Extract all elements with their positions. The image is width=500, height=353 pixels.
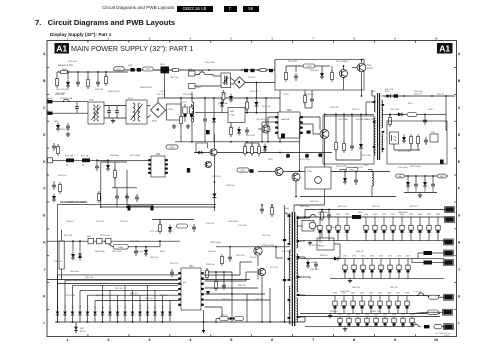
svg-text:6616: 6616 bbox=[358, 212, 363, 214]
wire stby links bbox=[297, 226, 340, 259]
svg-text:3511: 3511 bbox=[146, 69, 151, 71]
svg-text:2500 100n: 2500 100n bbox=[70, 271, 79, 273]
svg-text:3533 47R: 3533 47R bbox=[288, 61, 298, 63]
capacitor 2502 Y bbox=[115, 106, 119, 119]
capacitor 2536 blk bbox=[187, 168, 190, 173]
diode 6598 bbox=[144, 246, 148, 257]
capacitor 2560b bbox=[310, 261, 319, 271]
svg-text:2658: 2658 bbox=[410, 314, 414, 316]
resistor 3531 bbox=[285, 66, 303, 82]
capacitor 2504 bbox=[96, 72, 100, 87]
svg-text:+12V: +12V bbox=[72, 304, 74, 309]
bridge rectifier 6502 bbox=[231, 77, 246, 88]
wire 7502 collector bbox=[265, 98, 267, 125]
capacitor 2598 bbox=[170, 269, 174, 277]
svg-text:2516 330n: 2516 330n bbox=[183, 94, 194, 96]
svg-text:3573: 3573 bbox=[170, 147, 176, 149]
capacitor 2610 rail2 bbox=[343, 259, 347, 279]
node junction top-left bbox=[67, 71, 99, 73]
svg-text:2553 1n: 2553 1n bbox=[352, 109, 360, 111]
svg-text:AC POWER/STANDBY: AC POWER/STANDBY bbox=[60, 200, 88, 204]
svg-text:2565 470u: 2565 470u bbox=[398, 167, 409, 169]
resistor 3512 bbox=[170, 69, 181, 72]
wire aux sub-return bbox=[404, 189, 437, 193]
svg-text:A1: A1 bbox=[439, 44, 450, 54]
wire bridge output bbox=[158, 69, 167, 110]
svg-text:6511 BAV21: 6511 BAV21 bbox=[98, 160, 110, 163]
svg-text:6506 BYD33: 6506 BYD33 bbox=[140, 87, 153, 89]
diode 6583 bbox=[332, 257, 341, 261]
svg-text:2633 10k: 2633 10k bbox=[310, 201, 318, 203]
resistor 3576 bbox=[258, 144, 261, 156]
fuse 1501 T2.5A bbox=[195, 70, 213, 76]
svg-text:2651: 2651 bbox=[347, 314, 351, 316]
svg-text:2507 10k: 2507 10k bbox=[85, 277, 93, 279]
capacitor 2633 rail3 bbox=[360, 296, 364, 314]
svg-text:5501: 5501 bbox=[128, 98, 133, 100]
capacitor 2530 bbox=[294, 66, 298, 81]
wire secondary top rail bbox=[381, 95, 455, 97]
svg-text:D: D bbox=[43, 133, 46, 137]
svg-text:6562 STPS: 6562 STPS bbox=[336, 166, 347, 168]
svg-text:2584 100n: 2584 100n bbox=[282, 251, 291, 253]
node rail junctions bbox=[191, 97, 267, 99]
svg-text:2654: 2654 bbox=[374, 314, 378, 316]
svg-text:F: F bbox=[458, 187, 460, 191]
wire bus B links bbox=[104, 240, 161, 247]
svg-text:2562 1000u: 2562 1000u bbox=[410, 166, 422, 168]
svg-text:2505 2n2: 2505 2n2 bbox=[68, 61, 78, 63]
svg-text:L: L bbox=[458, 321, 460, 325]
svg-text:K: K bbox=[43, 294, 46, 298]
svg-text:6585: 6585 bbox=[160, 251, 165, 253]
capacitor 2601 rail1 bbox=[427, 217, 431, 241]
svg-text:3537 5k6: 3537 5k6 bbox=[246, 135, 255, 137]
resistor 3547 pill bbox=[177, 224, 188, 228]
svg-text:2573 100n: 2573 100n bbox=[100, 235, 111, 237]
connector 1016 bbox=[443, 309, 453, 315]
op-amp 7511 supervisor IC bbox=[148, 154, 168, 177]
connector 1013 bbox=[444, 250, 454, 256]
primary snubber box bbox=[323, 116, 374, 164]
svg-text:2546 68n: 2546 68n bbox=[110, 155, 120, 157]
wire standby drop-left bbox=[57, 204, 59, 321]
capacitor 2611 rail2 bbox=[352, 259, 356, 279]
capacitor 2590 rail1 bbox=[318, 217, 322, 241]
transformer 5505 terminals bbox=[373, 101, 384, 150]
resistor 3587 bbox=[235, 317, 244, 321]
resistor 3500 bbox=[58, 69, 70, 74]
resistor 3582 bbox=[97, 238, 103, 244]
svg-text:VLED: VLED bbox=[140, 304, 142, 310]
capacitor 2597 bbox=[134, 246, 138, 256]
schematic border frame bbox=[47, 41, 457, 337]
wire line2 lower bbox=[195, 85, 221, 87]
svg-text:2696 4n7: 2696 4n7 bbox=[222, 299, 230, 301]
svg-text:2598: 2598 bbox=[400, 214, 404, 216]
relay box 7510 bbox=[305, 167, 331, 189]
diode 6570 bbox=[106, 159, 110, 171]
svg-text:1: 1 bbox=[67, 36, 69, 40]
resistor 3594 bbox=[428, 310, 439, 314]
diode 6552 bbox=[402, 135, 406, 144]
capacitor 2617 rail2 bbox=[406, 259, 410, 279]
node top bus junctions bbox=[208, 69, 276, 71]
svg-text:C: C bbox=[43, 106, 46, 110]
svg-text:1004: 1004 bbox=[188, 69, 192, 71]
svg-text:2535 2k2: 2535 2k2 bbox=[145, 298, 153, 300]
svg-text:7503: 7503 bbox=[286, 110, 292, 112]
wire primary rail bbox=[165, 97, 281, 99]
svg-text:T 1.6A: T 1.6A bbox=[410, 322, 417, 325]
svg-text:C: C bbox=[458, 106, 461, 110]
transformer 5506 core bbox=[292, 212, 294, 326]
svg-text:2668 100n: 2668 100n bbox=[300, 206, 309, 208]
svg-text:2524 1n: 2524 1n bbox=[248, 77, 256, 79]
wire mid-right rail top bbox=[300, 171, 390, 173]
sheet reference box A1 top-left bbox=[55, 43, 70, 54]
wire aux sub-rail bbox=[396, 175, 448, 177]
svg-text:P-ON: P-ON bbox=[87, 304, 89, 309]
svg-text:2613: 2613 bbox=[370, 256, 374, 258]
wire transformer primary top bbox=[372, 95, 376, 96]
wire conn links1 bbox=[444, 210, 445, 243]
resistor 3572 bbox=[57, 144, 60, 156]
diode 6512 bbox=[254, 100, 258, 113]
zener 6516 bbox=[263, 144, 267, 153]
svg-text:2638: 2638 bbox=[405, 292, 409, 294]
resistor 3541 bbox=[343, 114, 346, 154]
svg-text:2615: 2615 bbox=[388, 256, 392, 258]
transistor 7516 bbox=[258, 268, 265, 275]
resistor 3522 bbox=[180, 97, 183, 142]
svg-text:2614: 2614 bbox=[379, 256, 383, 258]
svg-text:3571 1R: 3571 1R bbox=[81, 156, 89, 158]
resistor 3520 bbox=[222, 90, 225, 102]
svg-text:A: A bbox=[43, 52, 46, 56]
diode 6551 bbox=[396, 112, 405, 116]
connector 1017 bbox=[444, 324, 454, 330]
ground mains filter bbox=[111, 119, 115, 123]
resistor 3581 bbox=[87, 236, 94, 244]
capacitor 2655 rail4 bbox=[383, 317, 387, 327]
wire top bus bbox=[113, 69, 275, 71]
grid reference ticks and coordinates bbox=[43, 36, 461, 342]
svg-text:500: 500 bbox=[82, 165, 85, 167]
capacitor 2602 rail1 bbox=[436, 217, 440, 241]
svg-text:9: 9 bbox=[394, 36, 396, 40]
diode distribution row bbox=[56, 312, 172, 316]
svg-text:STBY: STBY bbox=[80, 304, 82, 310]
svg-text:2724 47u: 2724 47u bbox=[120, 221, 128, 223]
svg-text:2619 2k2: 2619 2k2 bbox=[372, 206, 380, 208]
svg-text:3577: 3577 bbox=[241, 170, 247, 172]
transistor 7531 bbox=[352, 63, 373, 97]
wire inductor links bbox=[155, 69, 171, 71]
wire center drop bbox=[214, 134, 216, 211]
diode 6560 bbox=[343, 171, 347, 185]
wire loop left bbox=[100, 162, 214, 208]
capacitor 2507b X bbox=[137, 68, 141, 72]
svg-text:H: H bbox=[43, 241, 46, 245]
svg-text:2515 47n: 2515 47n bbox=[170, 77, 180, 79]
svg-text:2616: 2616 bbox=[397, 256, 401, 258]
svg-text:3567: 3567 bbox=[440, 176, 446, 178]
svg-text:5502: 5502 bbox=[160, 64, 165, 66]
svg-text:3550: 3550 bbox=[371, 91, 375, 93]
capacitor 2548 bbox=[192, 224, 196, 232]
svg-text:6586 LL4148: 6586 LL4148 bbox=[262, 245, 275, 247]
transistor 7508 bbox=[275, 168, 283, 176]
resistor 3521 bbox=[230, 123, 233, 138]
resistor 3586 bbox=[220, 317, 229, 321]
svg-text:2521 1k5: 2521 1k5 bbox=[115, 288, 123, 290]
svg-text:2759 10k: 2759 10k bbox=[96, 295, 104, 297]
svg-text:6: 6 bbox=[271, 338, 273, 342]
capacitor 2632 rail3 bbox=[351, 296, 355, 314]
svg-text:3555 10R: 3555 10R bbox=[390, 109, 400, 111]
capacitor 2503 bbox=[76, 72, 80, 87]
capacitor 2556 pre-IC bbox=[305, 90, 314, 108]
wire rail4 return bbox=[305, 326, 412, 328]
svg-text:3566: 3566 bbox=[398, 176, 404, 178]
svg-text:2514 47u: 2514 47u bbox=[100, 283, 108, 285]
svg-text:H: H bbox=[458, 241, 461, 245]
capacitor 2652 rail4 bbox=[356, 317, 360, 327]
label feedback bbox=[398, 151, 411, 153]
wire rail1a bbox=[304, 210, 444, 218]
wire rail1 return bbox=[300, 240, 444, 242]
diode 6518 bbox=[306, 260, 315, 269]
capacitor 2599 rail1 bbox=[409, 217, 413, 241]
svg-text:2501 2n2 250V: 2501 2n2 250V bbox=[56, 89, 70, 91]
diode 6501 bbox=[66, 72, 70, 89]
wire lower control bus bbox=[194, 152, 332, 154]
svg-text:5507: 5507 bbox=[364, 165, 369, 167]
svg-text:2617: 2617 bbox=[406, 256, 410, 258]
svg-text:7531: 7531 bbox=[367, 65, 372, 67]
wire sub318 bbox=[215, 315, 227, 323]
capacitor 2654 rail4 bbox=[374, 317, 378, 327]
svg-text:6507: 6507 bbox=[284, 94, 289, 96]
capacitor 2534 blk bbox=[305, 153, 309, 158]
capacitor 2631 rail3 bbox=[342, 296, 346, 314]
svg-text:2591: 2591 bbox=[327, 214, 331, 216]
resistor 3560 bbox=[340, 168, 358, 172]
svg-text:3510: 3510 bbox=[117, 69, 123, 71]
module 7501 box bbox=[228, 108, 245, 123]
svg-text:2655: 2655 bbox=[383, 314, 387, 316]
svg-text:3527 820R: 3527 820R bbox=[130, 155, 141, 157]
wire conn links4 bbox=[442, 326, 445, 328]
transistor 7512 bbox=[210, 149, 217, 156]
svg-text:6573 BZX: 6573 BZX bbox=[130, 241, 140, 243]
svg-text:6508 BY228: 6508 BY228 bbox=[108, 91, 120, 93]
transformer 5505 core bbox=[378, 93, 380, 160]
svg-text:6553: 6553 bbox=[408, 103, 413, 105]
svg-text:2766 47u: 2766 47u bbox=[130, 295, 138, 297]
transformer 5506 secondary winding bbox=[296, 216, 297, 322]
svg-text:6535: 6535 bbox=[268, 159, 273, 161]
wire stubs frame-left bbox=[47, 99, 49, 111]
connector 1010 +B bbox=[445, 207, 455, 213]
wire IC right drops bbox=[205, 272, 247, 322]
svg-text:2653: 2653 bbox=[365, 314, 369, 316]
diode 6517 blk bbox=[250, 169, 254, 173]
svg-text:2602: 2602 bbox=[436, 214, 440, 216]
capacitor 2535 blk bbox=[318, 153, 322, 156]
capacitor 2597 rail1 bbox=[391, 217, 395, 241]
diode 6515 bbox=[196, 151, 205, 155]
capacitor 2658 rail4 bbox=[410, 317, 414, 327]
startup circuit box bbox=[275, 60, 364, 91]
connector 1011 bbox=[445, 217, 455, 223]
svg-text:2738 4n7: 2738 4n7 bbox=[66, 221, 74, 223]
resistor 3532 bbox=[331, 66, 334, 82]
node mid bus junctions bbox=[191, 141, 281, 143]
svg-text:2596: 2596 bbox=[382, 214, 386, 216]
resistor 3515 bbox=[246, 97, 249, 113]
svg-text:3557 10k: 3557 10k bbox=[385, 89, 395, 91]
connector 1004 line2 bbox=[188, 69, 195, 76]
capacitor 2615 rail2 bbox=[388, 259, 392, 279]
svg-text:T 3.15A: T 3.15A bbox=[414, 291, 422, 294]
svg-text:2661 2k2: 2661 2k2 bbox=[372, 311, 380, 313]
svg-text:4: 4 bbox=[189, 338, 192, 342]
wire bottom bus bbox=[55, 321, 305, 323]
sheet reference box A1 top-right bbox=[437, 43, 453, 54]
wire startup outputs bbox=[344, 78, 373, 96]
fuse 1502 bbox=[308, 214, 317, 217]
wire distribution lines bbox=[58, 275, 171, 322]
capacitor 2596 rail1 bbox=[382, 217, 386, 241]
svg-text:A1: A1 bbox=[56, 44, 67, 54]
capacitor 2574 bbox=[66, 123, 70, 136]
svg-text:3565 1R: 3565 1R bbox=[355, 167, 363, 169]
svg-text:T2.5A: T2.5A bbox=[198, 70, 204, 73]
capacitor 2500 X2 bbox=[75, 102, 79, 114]
wire q down links bbox=[261, 276, 271, 323]
wire standby line bbox=[48, 158, 152, 163]
connector 1002 mains line terminal bbox=[48, 98, 54, 104]
svg-text:7514: 7514 bbox=[188, 266, 194, 268]
svg-text:2637: 2637 bbox=[396, 292, 400, 294]
resistor 3584 bbox=[221, 254, 224, 266]
svg-text:B: B bbox=[43, 79, 46, 83]
svg-text:7511: 7511 bbox=[156, 154, 162, 156]
resistor 3555 bbox=[410, 134, 413, 146]
ground return bbox=[328, 314, 332, 318]
svg-text:+310V: +310V bbox=[160, 91, 166, 93]
capacitor 2592 rail1 bbox=[336, 217, 340, 241]
capacitor 2506b X bbox=[128, 65, 135, 72]
svg-text:500: 500 bbox=[66, 165, 69, 167]
transformer 5505 primary winding bbox=[374, 96, 375, 155]
svg-text:2601: 2601 bbox=[427, 214, 431, 216]
diode 6504 bbox=[237, 127, 241, 136]
svg-text:7506: 7506 bbox=[431, 132, 436, 134]
wire MOSFET drain bbox=[324, 114, 326, 130]
svg-text:1500 T3.15A: 1500 T3.15A bbox=[60, 97, 72, 100]
wire primary return bbox=[283, 205, 286, 323]
transistor 7502 bbox=[258, 120, 270, 133]
svg-text:3570 3R3: 3570 3R3 bbox=[65, 156, 73, 158]
wire filter link bottom bbox=[104, 117, 126, 119]
label plot number bbox=[436, 332, 451, 337]
capacitor 2582 bbox=[228, 247, 232, 262]
svg-text:BC558: BC558 bbox=[367, 68, 373, 70]
capacitor 2511 bulk bbox=[189, 104, 193, 122]
capacitor 2594 rail1 bbox=[364, 217, 368, 241]
svg-text:2506: 2506 bbox=[128, 65, 132, 67]
capacitor 2561b bbox=[354, 171, 358, 185]
svg-text:2543 10n: 2543 10n bbox=[305, 94, 315, 96]
label texture annotations bbox=[54, 201, 418, 313]
wire feedback internals bbox=[394, 144, 420, 150]
svg-text:2647 1k5: 2647 1k5 bbox=[390, 287, 398, 289]
svg-text:3524 4k7: 3524 4k7 bbox=[262, 106, 271, 108]
resistor 3546 bbox=[159, 219, 162, 234]
connector 1005 line2 bbox=[189, 84, 196, 89]
capacitor 2616 rail2 bbox=[397, 259, 401, 279]
resistor 3598 bbox=[206, 268, 209, 280]
svg-text:DEG: DEG bbox=[147, 305, 149, 310]
capacitor 2545 bbox=[98, 188, 139, 207]
resistor 3588 bbox=[215, 271, 218, 291]
svg-text:2745 2k2: 2745 2k2 bbox=[54, 261, 62, 263]
diode 6503 bbox=[229, 94, 233, 103]
wire bus C2 bbox=[58, 283, 179, 285]
svg-text:6541 BYV26: 6541 BYV26 bbox=[356, 119, 369, 121]
wire mid-left links bbox=[258, 172, 300, 198]
capacitor 2512 bbox=[244, 69, 248, 72]
svg-text:MC: MC bbox=[183, 282, 187, 284]
capacitor 2550b bbox=[394, 94, 399, 97]
resistor 3591 bbox=[424, 251, 433, 255]
capacitor 2637 rail3 bbox=[396, 296, 400, 314]
wire IC outputs right bbox=[204, 262, 270, 300]
svg-text:5: 5 bbox=[230, 36, 232, 40]
diode 6580 bbox=[71, 240, 75, 260]
svg-text:E: E bbox=[458, 160, 460, 164]
resistor 3574 bbox=[244, 144, 247, 156]
wire rail1 bbox=[298, 216, 445, 218]
svg-text:2: 2 bbox=[107, 338, 109, 342]
svg-text:2599: 2599 bbox=[409, 214, 413, 216]
diode 6584 bbox=[227, 317, 236, 321]
diode 6505 bbox=[212, 97, 216, 142]
sheet title MAIN POWER SUPPLY bbox=[71, 44, 194, 53]
box 7518 3V3 stby bbox=[317, 238, 334, 250]
svg-text:A_70086-038.eps: A_70086-038.eps bbox=[436, 332, 451, 335]
wire standby bus A bbox=[58, 203, 217, 205]
svg-text:3636 1k: 3636 1k bbox=[320, 255, 328, 257]
wire res bank top bbox=[245, 142, 259, 147]
capacitor 2613 rail2 bbox=[370, 259, 374, 279]
capacitor 2513 bbox=[251, 69, 255, 72]
svg-text:2656 100u: 2656 100u bbox=[340, 291, 351, 293]
wire IC left pins bbox=[261, 117, 275, 143]
fuse 1504 T3.15A bbox=[410, 322, 430, 329]
svg-text:2610: 2610 bbox=[343, 256, 347, 258]
diode 6561 bbox=[406, 175, 410, 188]
capacitor 2580 bbox=[128, 204, 131, 210]
svg-text:2731 1k5: 2731 1k5 bbox=[96, 221, 104, 223]
svg-text:3551 1k: 3551 1k bbox=[437, 94, 444, 96]
ground return bbox=[308, 241, 312, 245]
svg-text:2570 4n7: 2570 4n7 bbox=[250, 257, 258, 259]
svg-text:5500: 5500 bbox=[89, 100, 94, 102]
